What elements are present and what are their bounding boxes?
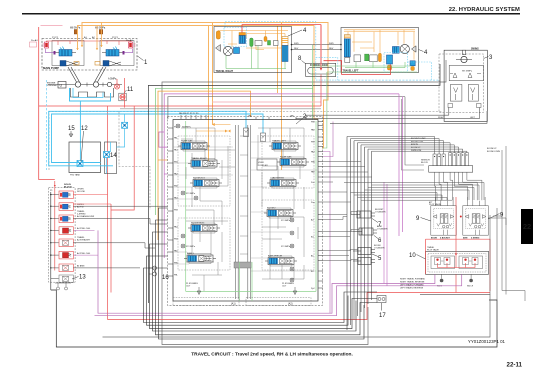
- red feed drop from above: [455, 197, 457, 251]
- att pilot feed horizontals: [351, 193, 453, 201]
- sol valve row7 (white X): [59, 264, 73, 272]
- svg-text:BLOCK: BLOCK: [421, 162, 429, 164]
- red supply drop into block: [54, 181, 56, 271]
- svg-text:TRAVEL CIRCUIT : Travel 2nd sp: TRAVEL CIRCUIT : Travel 2nd speed, RH & …: [191, 352, 353, 358]
- svg-text:TRAVEL RIGHT: TRAVEL RIGHT: [216, 70, 234, 73]
- counterbalance white boxes: [354, 55, 361, 62]
- left drain rail: [50, 192, 52, 290]
- svg-text:8: 8: [298, 56, 302, 62]
- pedals below: [440, 279, 444, 283]
- shuttle fan line 8: [372, 151, 467, 153]
- brake release valve blue: [392, 47, 399, 54]
- control valve inner box: [173, 120, 318, 302]
- svg-text:15: 15: [68, 126, 75, 132]
- travel crossover black pair between motors: [292, 45, 342, 50]
- shuttle fan line 6: [365, 147, 459, 153]
- junction dots on rail: [50, 194, 51, 269]
- motor circle with X: [400, 44, 409, 53]
- red pilot branch: [39, 105, 321, 107]
- cyan dashed pilot box: [224, 28, 247, 47]
- svg-text:MAIN PUMP: MAIN PUMP: [43, 66, 59, 70]
- sol valve row3 (blue): [59, 215, 73, 223]
- magenta jog into valve PA1: [159, 132, 168, 147]
- svg-text:ST. 8MPa: ST. 8MPa: [186, 246, 196, 248]
- att pilot valve left unit: [431, 197, 457, 235]
- relief cross valve 11a: [114, 84, 119, 89]
- svg-text:BOOM UP: BOOM UP: [411, 147, 421, 149]
- svg-text:P2 P1: P2 P1: [112, 37, 119, 39]
- svg-text:3: 3: [489, 55, 493, 61]
- swing drain line: [330, 111, 487, 123]
- motor circle with X: [223, 46, 232, 55]
- svg-text:13: 13: [79, 275, 86, 281]
- orange feed rail upper: [82, 23, 328, 149]
- spool: swing gas: [277, 157, 309, 167]
- svg-text:Pm A4: Pm A4: [31, 39, 38, 42]
- solenoid outputs red: [73, 195, 111, 204]
- control valve outer dashed box: [168, 117, 323, 306]
- internal dashed sub-boxes: [178, 136, 314, 270]
- valve interior faint port rows: [173, 142, 317, 271]
- svg-text:(A2): (A2): [288, 303, 293, 306]
- svg-text:ST. 8MPa: ST. 8MPa: [281, 246, 291, 248]
- cyan dashed make-up line: [338, 79, 439, 81]
- green drop into valve right top: [312, 88, 314, 119]
- red supply drop into brake valve: [241, 25, 243, 33]
- svg-text:YY01Z00123P1 01: YY01Z00123P1 01: [468, 339, 506, 344]
- regulator red valve right: [129, 42, 136, 48]
- svg-text:CUT: CUT: [186, 286, 191, 288]
- relief glyphs right column: [290, 218, 294, 282]
- svg-text:22. HYDRAULIC SYSTEM: 22. HYDRAULIC SYSTEM: [449, 7, 520, 13]
- svg-text:LEFT: LEFT: [470, 117, 476, 119]
- oil cooler box: [105, 142, 117, 174]
- cyan pilot return rails: [49, 111, 246, 166]
- orange pill center: [264, 37, 267, 42]
- sol valve row4 (red): [59, 227, 73, 235]
- right edge long verticals: [502, 146, 525, 301]
- function texts: [411, 138, 501, 153]
- gray bottom line: [103, 295, 491, 338]
- shuttle blue block lower: [387, 55, 393, 64]
- motor cone: [412, 46, 417, 52]
- shuttle fan line 7: [368, 149, 463, 153]
- spool: travel 2-speed / pump gas (upper-left): [178, 141, 210, 151]
- bundle orange 4: [158, 91, 251, 240]
- svg-text:PL BY-PASS: PL BY-PASS: [282, 282, 294, 285]
- travel left outer box: [341, 28, 419, 73]
- spool: travel right: [188, 159, 220, 169]
- bottom check squares: [448, 104, 453, 108]
- black drain L to bottom right: [51, 290, 497, 347]
- parking brake blue block: [234, 48, 240, 54]
- purple bottom line B: [95, 274, 462, 315]
- svg-text:12: 12: [81, 126, 88, 132]
- svg-text:PILOT VALVE: PILOT VALVE: [427, 248, 440, 251]
- solenoid block dashed box: [49, 188, 76, 283]
- regulator pilot lines purple right: [125, 49, 133, 53]
- bundle gray 1: [162, 60, 446, 345]
- svg-text:REV: REV: [294, 48, 299, 50]
- purple risers right of valve: [323, 122, 333, 314]
- svg-text:CYLINDER: CYLINDER: [375, 212, 386, 214]
- spool: bucket: [188, 223, 220, 233]
- svg-text:PA7: PA7: [311, 151, 316, 154]
- svg-text:HYDR: HYDR: [258, 162, 264, 164]
- svg-text:FWD: FWD: [329, 43, 334, 45]
- svg-text:PB3: PB3: [174, 210, 179, 212]
- svg-text:22: 22: [523, 222, 531, 231]
- green bottom header: [186, 290, 316, 292]
- shuttle fan line 4: [358, 143, 451, 153]
- anti-cavitation valves: [450, 85, 462, 102]
- green rail right: [315, 121, 317, 291]
- orange feed rail lower: [78, 26, 315, 120]
- svg-text:BOOM 2: BOOM 2: [267, 208, 276, 210]
- svg-text:A 5MPa: A 5MPa: [108, 78, 117, 81]
- svg-text:17: 17: [379, 313, 386, 319]
- relief cross valve 11b: [119, 93, 126, 101]
- standalone fan top right: [122, 122, 128, 128]
- magenta arm into valve PA2: [164, 173, 167, 175]
- shuttle valve glyphs right five: [449, 153, 469, 166]
- regulator red valve left: [43, 42, 49, 48]
- green block center: [268, 41, 271, 46]
- svg-text:M8 5MPa: M8 5MPa: [70, 27, 81, 30]
- regulator pilot lines purple left: [46, 49, 54, 53]
- top port stubs and labels: [181, 115, 306, 119]
- svg-text:Pp2: Pp2: [311, 288, 315, 290]
- swing dashed box: [439, 54, 484, 113]
- svg-text:RIGHT TRAVEL REVERSE: RIGHT TRAVEL REVERSE: [400, 281, 425, 284]
- spool: arm 2: [265, 256, 297, 266]
- svg-text:A4 P.W: A4 P.W: [77, 205, 84, 208]
- svg-text:SR 19MPa: SR 19MPa: [462, 71, 473, 73]
- svg-text:LOAD/SWING: LOAD/SWING: [270, 177, 284, 180]
- orange pill: [378, 53, 381, 62]
- sol valve row2 (blue): [59, 203, 73, 211]
- svg-text:9: 9: [416, 216, 420, 222]
- gray dashed pilot boundary: [49, 112, 442, 171]
- center partition gallery: [236, 125, 251, 299]
- solenoid outputs black: [73, 206, 167, 268]
- bucket cylinder: [351, 211, 375, 218]
- svg-text:Pns: Pns: [311, 182, 314, 184]
- svg-text:WD LH: WD LH: [467, 286, 474, 288]
- cyan dashed pilot boxes: [384, 53, 408, 73]
- pump regulator left sub-box: [52, 41, 84, 66]
- center bypass thick segment: [234, 262, 251, 268]
- red drop from make-up column: [320, 74, 322, 106]
- svg-text:(A1): (A1): [231, 303, 236, 306]
- pink pilot segment top-left: [41, 25, 63, 27]
- bundle gray 6: [168, 97, 405, 119]
- counterbalance white boxes: [255, 41, 262, 46]
- swing outer solid box: [444, 50, 487, 121]
- cyan dashed around make-up: [316, 58, 338, 81]
- orifice components top of pump: [74, 30, 103, 35]
- red riser right of pumps: [117, 78, 125, 97]
- svg-text:AT ARM: AT ARM: [77, 265, 85, 268]
- svg-text:PA8: PA8: [311, 129, 316, 132]
- spool: boom 2 lower: [190, 178, 222, 188]
- shuttle fan line 3: [354, 141, 444, 154]
- gray right drain risers: [490, 208, 497, 300]
- servo piston right (blue hatched): [102, 47, 125, 57]
- block bottom glyphs: [55, 283, 71, 287]
- svg-text:BOOM UP: BOOM UP: [487, 148, 497, 150]
- svg-text:NO LINK: NO LINK: [77, 191, 86, 193]
- svg-text:(A6): (A6): [248, 115, 252, 118]
- solenoid outputs purple: [73, 230, 98, 255]
- right port stubs: [318, 122, 323, 289]
- magenta risers to pilot area: [398, 94, 400, 236]
- green drain bottom: [226, 46, 286, 69]
- svg-text:14: 14: [110, 153, 117, 159]
- red bottom line: [108, 293, 368, 320]
- swash actuator left dark-blue block: [60, 61, 79, 67]
- cooler fan 14: [104, 152, 110, 158]
- svg-text:BLOCK: BLOCK: [64, 187, 72, 189]
- bundle green 3: [156, 68, 313, 216]
- spool: boom 2: [264, 208, 296, 218]
- function list bottom-left of pilot valves: [400, 278, 426, 290]
- chapter tab 22: [521, 209, 533, 244]
- component 16 glyphs: [149, 266, 157, 276]
- svg-text:Pm A4: Pm A4: [126, 39, 133, 42]
- svg-text:PILOT VALVE: PILOT VALVE: [429, 203, 442, 206]
- svg-text:BUCKET DUMP: BUCKET DUMP: [411, 138, 426, 140]
- cylinder connections: [323, 212, 357, 261]
- svg-text:FWD: FWD: [294, 43, 299, 45]
- red right link: [367, 292, 490, 294]
- svg-text:ARM IN: ARM IN: [411, 143, 419, 146]
- engine box: [58, 82, 66, 89]
- svg-text:PBL: PBL: [174, 275, 179, 277]
- svg-text:5: 5: [378, 256, 382, 262]
- horizontals from valve right ports to bundle: [323, 162, 372, 203]
- svg-text:ARM 1: ARM 1: [187, 252, 194, 255]
- sol valve row5 (white X): [59, 239, 73, 247]
- svg-text:CUT: CUT: [282, 286, 287, 288]
- cyan dashed return rail: [46, 80, 48, 170]
- svg-text:P1 P2: P1 P2: [52, 37, 59, 39]
- svg-text:P1: P1: [50, 190, 53, 192]
- orange drop to valve left pair: [209, 23, 213, 162]
- cyan cooler piping: [107, 114, 125, 174]
- make-up body: [306, 63, 336, 76]
- cyan dashed pilot rail above motors: [225, 22, 316, 58]
- top fitting: [463, 50, 466, 55]
- red main L line: [39, 27, 55, 180]
- svg-text:A4 P3/6L CHG: A4 P3/6L CHG: [77, 227, 91, 230]
- svg-text:Pno: Pno: [311, 202, 315, 204]
- svg-text:PL BY-PASS: PL BY-PASS: [186, 282, 198, 285]
- svg-text:A2: A2: [92, 36, 95, 39]
- red drop below box: [455, 274, 457, 292]
- shaft tick marks: [87, 83, 103, 87]
- svg-text:ST. 8MPa: ST. 8MPa: [281, 220, 291, 222]
- swing main line left: [296, 118, 480, 119]
- bundle black 2: [148, 64, 440, 303]
- svg-text:4: 4: [424, 50, 428, 56]
- pump drive line: [48, 84, 122, 86]
- svg-text:(A8): (A8): [290, 115, 294, 118]
- svg-text:4: 4: [303, 28, 307, 34]
- svg-text:BOOM 2/LO: BOOM 2/LO: [193, 178, 205, 180]
- svg-text:REV: REV: [329, 48, 334, 50]
- internal gallery wiring mesh: [181, 128, 304, 291]
- red supply lines inside pump box: [47, 41, 132, 42]
- sol valve row1 (blue): [59, 191, 73, 199]
- red top rail: [242, 24, 321, 26]
- svg-text:PA9 PB9 P1 P2 PC PD: PA9 PB9 P1 P2 PC PD: [179, 112, 199, 115]
- red interconnections inside: [438, 251, 476, 267]
- bundle magenta 5: [164, 94, 399, 258]
- boom cylinder lower: [353, 258, 375, 265]
- main pump outer dashed box: [42, 39, 137, 71]
- cyan check valve boxes: [244, 128, 249, 137]
- pump regulator right sub-box: [100, 41, 134, 66]
- orange arm into valve PB1: [158, 159, 168, 161]
- relief glyphs left column: [176, 124, 198, 248]
- svg-text:RIGHT: RIGHT: [438, 117, 445, 119]
- cyan drop to tank: [79, 101, 81, 164]
- orange internals in valve: [196, 124, 231, 132]
- suction cyan loop: [70, 88, 111, 101]
- shuttle fan line 5: [361, 145, 454, 153]
- svg-text:PA6: PA6: [311, 171, 316, 174]
- svg-text:LEFT TRAVEL REVERSE: LEFT TRAVEL REVERSE: [400, 287, 424, 290]
- inner pedal units: [431, 256, 455, 269]
- swing main line right: [306, 115, 449, 119]
- shuttle fan line 1: [347, 137, 435, 155]
- svg-text:BUCKET/DIG: BUCKET/DIG: [191, 223, 205, 225]
- gray return low: [120, 108, 321, 110]
- relief pair box: [449, 65, 483, 80]
- spool: swing: [267, 178, 299, 188]
- svg-text:A4 P3/6L CHG: A4 P3/6L CHG: [77, 252, 91, 255]
- svg-text:A4 STRAIGHT: A4 STRAIGHT: [77, 238, 91, 241]
- svg-text:BOOM DOWN: BOOM DOWN: [487, 151, 501, 153]
- pump circle 2: [93, 82, 98, 87]
- shuttle valve glyphs left trio: [433, 154, 445, 166]
- svg-text:11: 11: [127, 87, 134, 93]
- 2-speed valve left: orange hatch + blue slab: [344, 35, 350, 39]
- red outer loop: [426, 239, 491, 291]
- svg-text:22-11: 22-11: [507, 362, 523, 369]
- svg-text:10: 10: [409, 253, 416, 259]
- green rail left: [185, 121, 187, 291]
- orange internal piping: [218, 31, 288, 50]
- servo piston left (blue hatched): [54, 47, 77, 57]
- pump circle 3 (gear): [107, 82, 111, 86]
- sensor block flat body: [429, 166, 473, 173]
- red link to travel left motor: [324, 61, 391, 75]
- green block: [365, 54, 369, 61]
- att pilot valve right unit: [460, 197, 489, 235]
- svg-text:PB6: PB6: [311, 162, 316, 164]
- green drain bottom: [345, 62, 405, 68]
- motor cone symbol: [216, 45, 221, 52]
- bottom (A1)(A2) dashed tank headers: [173, 298, 239, 306]
- svg-text:RIGHT TRAVEL FORWARD: RIGHT TRAVEL FORWARD: [400, 278, 426, 281]
- orange elbow into valve right side: [314, 118, 318, 120]
- green drops at bottom: [240, 262, 253, 301]
- header rule: [22, 13, 520, 15]
- red bus riser left: [111, 106, 134, 210]
- pump circle 1: [75, 82, 80, 87]
- filter glyph under 15: [69, 131, 73, 137]
- 2-speed valve right: orange hatch + blue slab: [282, 37, 288, 46]
- spool: arm 1: [184, 254, 216, 264]
- svg-text:ENGINE: ENGINE: [47, 83, 56, 85]
- left port stubs: [168, 128, 173, 276]
- tank cooler fan: [77, 161, 83, 167]
- orange pill top-left: [216, 31, 220, 39]
- svg-text:HYD TANK: HYD TANK: [70, 174, 81, 177]
- svg-text:FOUR GAS: FOUR GAS: [280, 156, 292, 159]
- pink faint return: [212, 101, 321, 103]
- svg-text:TRAVEL LEFT: TRAVEL LEFT: [272, 140, 287, 143]
- right small blue + orange: [410, 61, 415, 66]
- svg-text:2200r/min: 2200r/min: [47, 84, 58, 87]
- orange drop to valve right pair: [278, 23, 282, 171]
- pressure reducing valves with red elements: [435, 258, 479, 265]
- travel pilot outer box: [426, 251, 489, 274]
- svg-text:CYLINDER: CYLINDER: [377, 229, 388, 231]
- lines down from sensor block to pilot valves: [435, 172, 453, 201]
- svg-text:PUMP GAS: PUMP GAS: [181, 140, 193, 143]
- svg-text:U: U: [60, 84, 63, 88]
- arm cylinder: [353, 228, 377, 235]
- svg-text:PB7: PB7: [311, 142, 316, 144]
- spool: travel left (upper-right): [269, 141, 301, 151]
- suction manifold outline: [71, 88, 114, 97]
- travel crossover lines: [144, 268, 378, 323]
- svg-text:6: 6: [378, 238, 382, 244]
- counterbalance: green pill: [250, 38, 253, 47]
- make-up capsule: [308, 67, 334, 74]
- brake release valve (blue w/ orange cap): [239, 33, 246, 36]
- red rails to solenoid block: [107, 106, 109, 320]
- swash actuator right dark-blue block: [95, 61, 121, 67]
- svg-text:PB8: PB8: [311, 122, 316, 124]
- svg-text:1: 1: [144, 60, 148, 66]
- travel right outer box: [214, 27, 292, 73]
- swing motor circle: [461, 56, 467, 62]
- purple bottom line A: [98, 230, 435, 313]
- vertical bundle center-right: [347, 137, 354, 331]
- svg-text:CYLINDER: CYLINDER: [374, 248, 385, 250]
- sol valve row8 (white X): [59, 275, 73, 283]
- pink small port boxes: [30, 42, 37, 47]
- red feed center: [320, 25, 322, 71]
- boom cylinder upper: [353, 248, 375, 255]
- svg-text:A4 CHANGEOVER: A4 CHANGEOVER: [77, 215, 95, 218]
- swash link arrows: [68, 67, 106, 82]
- svg-text:ST. 8MPa: ST. 8MPa: [186, 193, 196, 195]
- sol valve row6 (red): [59, 251, 73, 259]
- hydraulic tank box: [69, 142, 101, 173]
- orange internal piping: [344, 30, 415, 60]
- svg-text:16: 16: [162, 275, 169, 281]
- shuttle fan line 2: [351, 139, 440, 154]
- svg-text:B5: B5: [311, 271, 314, 273]
- gray dashed tank wrap: [119, 112, 150, 211]
- svg-text:SWING: SWING: [471, 48, 479, 50]
- hydr coupler block: [257, 159, 277, 170]
